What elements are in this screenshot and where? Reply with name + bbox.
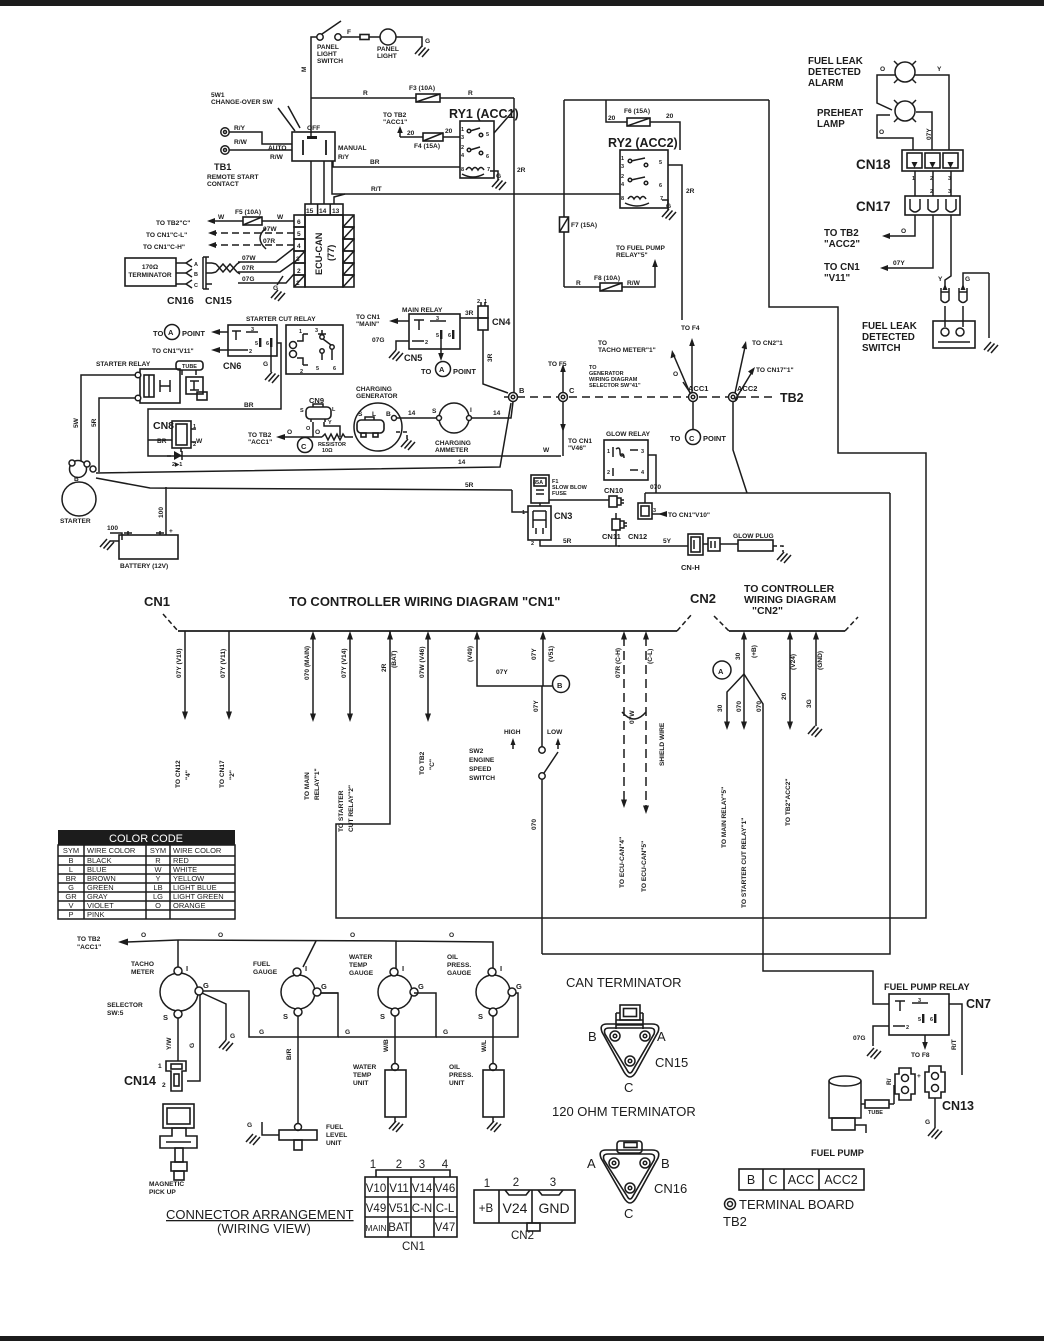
svg-text:TO CN1: TO CN1	[824, 262, 860, 273]
svg-text:20: 20	[407, 130, 415, 137]
wire 07G to pin1	[238, 274, 294, 283]
svg-text:"4": "4"	[185, 770, 192, 780]
svg-text:V: V	[68, 901, 73, 910]
svg-text:TO MAIN RELAY"5": TO MAIN RELAY"5"	[721, 787, 728, 848]
water temp unit	[394, 1016, 396, 1064]
svg-text:100: 100	[107, 525, 118, 532]
svg-text:CN13: CN13	[942, 1099, 974, 1113]
svg-text:PANEL: PANEL	[377, 46, 399, 53]
C terminal W wire down	[562, 401, 564, 456]
svg-text:2: 2	[621, 174, 624, 180]
svg-text:Y: Y	[937, 66, 942, 73]
svg-text:G: G	[263, 361, 268, 368]
wire lamp to ground	[396, 37, 422, 47]
ECU-CAN connector pin wires up	[311, 161, 345, 204]
svg-text:5: 5	[918, 1017, 921, 1023]
svg-text:CHANGE-OVER SW: CHANGE-OVER SW	[211, 99, 274, 106]
small connector next to CN-H	[708, 538, 720, 551]
svg-text:TACHO METER"1": TACHO METER"1"	[598, 347, 656, 354]
svg-text:"C": "C"	[429, 759, 436, 770]
CN1 wire 07Y V14	[349, 637, 351, 714]
svg-text:CHARGING: CHARGING	[356, 386, 392, 393]
svg-text:CHARGING: CHARGING	[435, 440, 471, 447]
svg-text:UNIT: UNIT	[353, 1080, 368, 1087]
svg-text:TO MAIN: TO MAIN	[304, 772, 311, 800]
svg-text:AUTO: AUTO	[268, 145, 287, 152]
svg-text:2: 2	[162, 1082, 166, 1089]
CN6 relay box	[228, 325, 277, 356]
svg-text:07Y (V11): 07Y (V11)	[220, 649, 227, 678]
TO TACHO METER arrow	[674, 356, 690, 393]
svg-text:4: 4	[297, 243, 301, 250]
shield brace arc	[260, 228, 266, 249]
svg-text:LIGHT: LIGHT	[377, 53, 397, 60]
svg-text:B: B	[68, 856, 73, 865]
svg-text:PANEL: PANEL	[317, 44, 339, 51]
svg-text:TO STARTER CUT RELAY"1": TO STARTER CUT RELAY"1"	[741, 818, 748, 908]
svg-text:2R: 2R	[517, 167, 526, 174]
big staircase wire to CN1 2R(BAT)	[336, 100, 926, 918]
svg-text:GREEN: GREEN	[87, 883, 114, 892]
CN17 pin2 wire TO CN1 V11	[886, 215, 933, 268]
svg-text:FUEL LEAK: FUEL LEAK	[862, 321, 917, 332]
CN2 pin table	[474, 1190, 575, 1231]
ACC2 TO CN2 arrow	[735, 347, 745, 393]
svg-text:(WIRING VIEW): (WIRING VIEW)	[217, 1221, 311, 1236]
svg-text:LAMP: LAMP	[817, 119, 845, 130]
svg-text:6: 6	[297, 219, 301, 226]
svg-text:1: 1	[484, 1178, 490, 1190]
svg-text:GAUGE: GAUGE	[349, 970, 374, 977]
starter output wires	[96, 403, 511, 473]
CN17 pin3 wire Y to fuel leak switch	[945, 215, 951, 327]
svg-text:TO TB2: TO TB2	[824, 228, 859, 239]
svg-text:W: W	[543, 447, 550, 454]
svg-text:GAUGE: GAUGE	[253, 969, 278, 976]
svg-text:2: 2	[249, 349, 252, 355]
svg-text:R: R	[576, 280, 581, 287]
svg-text:CAN TERMINATOR: CAN TERMINATOR	[566, 975, 682, 990]
svg-text:5R: 5R	[91, 418, 98, 427]
svg-text:STARTER CUT RELAY: STARTER CUT RELAY	[246, 316, 316, 323]
terminal C	[559, 393, 568, 402]
svg-text:1: 1	[484, 299, 487, 305]
svg-text:07W: 07W	[242, 255, 256, 262]
wires TB1 to change-over switch	[229, 132, 292, 150]
RY2 2R output wire	[668, 165, 682, 320]
svg-text:07W: 07W	[629, 710, 636, 724]
svg-text:RED: RED	[173, 856, 189, 865]
tube on starter relay	[176, 361, 203, 370]
svg-text:F4 (15A): F4 (15A)	[414, 143, 440, 150]
svg-text:SWITCH: SWITCH	[862, 343, 901, 354]
svg-text:TO CN1"C-L": TO CN1"C-L"	[146, 232, 187, 239]
svg-text:(V49): (V49)	[467, 646, 474, 662]
svg-text:V11: V11	[389, 1183, 409, 1195]
svg-text:RY1 (ACC1): RY1 (ACC1)	[449, 107, 519, 121]
charging ammeter	[439, 403, 469, 433]
svg-text:6: 6	[486, 154, 489, 160]
svg-text:BATTERY (12V): BATTERY (12V)	[120, 563, 168, 570]
svg-text:CN14: CN14	[124, 1074, 156, 1088]
CN1 wire V10	[184, 631, 186, 712]
svg-text:C: C	[569, 386, 575, 395]
svg-text:07W (V46): 07W (V46)	[419, 646, 426, 678]
svg-text:COLOR CODE: COLOR CODE	[109, 833, 183, 845]
svg-text:TO CN1"C-H": TO CN1"C-H"	[143, 244, 185, 251]
svg-text:100: 100	[158, 507, 165, 518]
wire 07W to pin4	[238, 248, 294, 262]
svg-text:07G: 07G	[372, 337, 384, 344]
svg-text:2: 2	[513, 1177, 519, 1189]
svg-text:F3 (10A): F3 (10A)	[409, 85, 435, 92]
svg-text:W: W	[196, 438, 203, 445]
svg-text:B/R: B/R	[286, 1048, 293, 1060]
fuse F6 (15A) on RY2 feed	[606, 100, 680, 150]
svg-text:TO CN2"1: TO CN2"1	[752, 340, 783, 347]
svg-text:S: S	[283, 1012, 288, 1021]
CN7 R/T wire to CN13	[949, 1004, 962, 1075]
G bus fuel-water	[321, 993, 436, 1037]
svg-text:CN11: CN11	[602, 532, 621, 541]
svg-text:CN-H: CN-H	[681, 563, 700, 572]
svg-text:30: 30	[717, 704, 724, 712]
svg-text:O: O	[287, 429, 292, 436]
CN15 bracket	[203, 257, 212, 289]
svg-text:4: 4	[442, 1159, 449, 1171]
svg-text:TO ECU-CAN"4": TO ECU-CAN"4"	[619, 837, 626, 888]
pin6 wire with F5 fuse TO TB2 C	[213, 220, 294, 222]
svg-text:2: 2	[300, 369, 303, 375]
svg-text:3: 3	[948, 189, 951, 195]
change-over switch box	[292, 132, 335, 161]
svg-text:TO CN12: TO CN12	[175, 760, 182, 788]
svg-text:TO STARTER: TO STARTER	[338, 790, 345, 832]
svg-text:TACHO: TACHO	[131, 961, 154, 968]
svg-text:TO: TO	[153, 329, 163, 338]
svg-text:W/L: W/L	[481, 1040, 488, 1052]
svg-text:CN18: CN18	[856, 157, 891, 172]
svg-text:I: I	[186, 964, 188, 973]
svg-text:3: 3	[251, 327, 254, 333]
CN1 wire V11	[228, 631, 230, 712]
svg-text:I: I	[500, 964, 502, 973]
svg-text:CONNECTOR ARRANGEMENT: CONNECTOR ARRANGEMENT	[166, 1207, 354, 1222]
CN17 pin1 wire TO TB2 ACC2	[888, 215, 915, 236]
svg-text:3: 3	[641, 449, 644, 455]
F1 slow blow fuse	[531, 475, 549, 503]
starter relay coil wires to starter	[81, 375, 135, 462]
svg-text:3: 3	[461, 135, 464, 141]
svg-text:HIGH: HIGH	[504, 729, 521, 736]
svg-text:LIGHT BLUE: LIGHT BLUE	[173, 883, 217, 892]
svg-text:85A: 85A	[533, 480, 543, 486]
svg-text:POINT: POINT	[182, 329, 205, 338]
svg-text:DETECTED: DETECTED	[808, 67, 861, 78]
CN1 wire V49	[477, 637, 552, 686]
CN7 TO F8 arrow	[924, 1035, 926, 1044]
G bus tacho-fuel	[203, 991, 338, 1037]
svg-text:C: C	[624, 1080, 633, 1095]
svg-text:O: O	[880, 66, 885, 73]
svg-text:V14: V14	[412, 1183, 433, 1195]
svg-text:W: W	[218, 214, 225, 221]
svg-text:G: G	[189, 1043, 196, 1048]
svg-text:TO TB2"ACC2": TO TB2"ACC2"	[785, 778, 792, 826]
svg-text:WIRE COLOR: WIRE COLOR	[173, 846, 222, 855]
svg-text:(V24): (V24)	[790, 654, 797, 670]
svg-text:GRAY: GRAY	[87, 892, 108, 901]
svg-text:R: R	[155, 856, 161, 865]
svg-text:LB: LB	[153, 883, 162, 892]
svg-text:07Y: 07Y	[496, 669, 508, 676]
G wire to fuel leak switch	[963, 273, 989, 327]
svg-text:3R: 3R	[487, 353, 494, 362]
svg-text:TB1: TB1	[214, 162, 231, 172]
svg-text:FUEL: FUEL	[253, 961, 270, 968]
svg-text:3: 3	[621, 164, 624, 170]
starter cut relay box	[286, 325, 343, 374]
CN1 wire 07W V46	[427, 637, 429, 714]
svg-text:CN4: CN4	[492, 317, 511, 327]
oil press unit	[492, 1016, 494, 1064]
svg-text:(GND): (GND)	[817, 651, 824, 670]
svg-text:CN15: CN15	[205, 295, 232, 307]
svg-text:G: G	[443, 1029, 448, 1036]
CN7 pin2 ground 07G	[873, 1026, 889, 1046]
svg-text:5Y: 5Y	[663, 538, 672, 545]
svg-text:5W1: 5W1	[211, 92, 225, 99]
svg-text:G: G	[259, 1029, 264, 1036]
svg-text:07G: 07G	[242, 276, 254, 283]
svg-text:B: B	[519, 386, 525, 395]
svg-text:1: 1	[370, 1159, 376, 1171]
070 net horizontal	[645, 492, 890, 494]
twisted pair wires	[212, 262, 240, 274]
svg-text:10Ω: 10Ω	[322, 448, 333, 454]
svg-text:TO CONTROLLER WIRING DIAGRAM ": TO CONTROLLER WIRING DIAGRAM "CN1"	[289, 594, 560, 609]
terminal board TB2 table	[739, 1169, 864, 1190]
svg-text:R: R	[363, 90, 368, 97]
svg-text:C: C	[194, 283, 198, 289]
svg-text:ACC1: ACC1	[688, 384, 708, 393]
svg-text:YELLOW: YELLOW	[173, 874, 205, 883]
fuse F8 (10A) to fuel pump relay	[564, 264, 655, 287]
svg-text:S: S	[432, 408, 437, 415]
CN4 3R wire down to B	[483, 330, 508, 393]
svg-text:SWITCH: SWITCH	[317, 58, 343, 65]
wire RY1 pin5 to 2R vertical	[494, 110, 514, 133]
svg-text:POINT: POINT	[703, 434, 726, 443]
svg-text:O: O	[673, 371, 678, 378]
ACC2 wire down to 070 net	[733, 401, 747, 493]
svg-text:+: +	[917, 1073, 921, 1080]
svg-text:"ACC1": "ACC1"	[77, 944, 101, 951]
svg-text:"ACC2": "ACC2"	[824, 239, 860, 250]
svg-text:6: 6	[333, 366, 336, 372]
svg-text:O: O	[879, 129, 884, 136]
svg-text:G: G	[247, 1122, 252, 1129]
svg-text:CN1: CN1	[144, 594, 170, 609]
CN16 pin hooks	[176, 263, 186, 284]
svg-text:A: A	[587, 1156, 596, 1171]
generator ground	[396, 432, 407, 440]
svg-text:TO F5: TO F5	[548, 361, 567, 368]
svg-text:F6 (15A): F6 (15A)	[624, 108, 650, 115]
CN2 wire V24	[789, 637, 791, 722]
CN18 to CN17 wires	[915, 171, 951, 196]
svg-text:3G: 3G	[806, 699, 813, 708]
svg-text:WIRE COLOR: WIRE COLOR	[87, 846, 136, 855]
top border bar	[0, 0, 1044, 6]
svg-text:2: 2	[607, 470, 610, 476]
svg-text:20: 20	[608, 115, 616, 122]
C point circle	[298, 438, 313, 453]
svg-text:(C-L): (C-L)	[647, 649, 654, 664]
svg-text:5: 5	[316, 366, 319, 372]
CN-H connector	[688, 534, 703, 555]
svg-text:GND: GND	[538, 1200, 569, 1216]
svg-text:G: G	[425, 38, 430, 45]
svg-text:13: 13	[332, 208, 340, 215]
svg-text:V46: V46	[435, 1183, 455, 1195]
svg-text:"CN2": "CN2"	[752, 605, 783, 617]
fuse F7 (15A) vertical	[563, 100, 565, 287]
svg-text:B: B	[74, 476, 79, 483]
svg-text:3: 3	[296, 256, 300, 263]
svg-text:WATER: WATER	[353, 1064, 377, 1071]
svg-text:07R (C-H): 07R (C-H)	[615, 648, 622, 678]
svg-text:SW:5: SW:5	[107, 1010, 124, 1017]
svg-text:STARTER RELAY: STARTER RELAY	[96, 361, 151, 368]
svg-text:P: P	[68, 910, 73, 919]
color code table	[58, 830, 235, 845]
svg-text:"ACC1": "ACC1"	[248, 439, 272, 446]
svg-text:(+B): (+B)	[751, 645, 758, 658]
CN2 wire GND	[815, 637, 817, 726]
ECU-CAN ground	[277, 276, 283, 285]
svg-text:2: 2	[930, 189, 933, 195]
svg-text:R/Y: R/Y	[234, 125, 246, 132]
svg-text:MAGNETIC: MAGNETIC	[149, 1181, 184, 1188]
svg-text:CUT RELAY"2": CUT RELAY"2"	[348, 785, 355, 832]
svg-text:2: 2	[531, 541, 534, 547]
svg-text:WHITE: WHITE	[173, 865, 197, 874]
svg-text:BLACK: BLACK	[87, 856, 112, 865]
svg-text:TO: TO	[421, 367, 431, 376]
TO CN1 V10 arrow	[652, 513, 664, 515]
svg-text:1: 1	[296, 280, 300, 287]
svg-text:CN17: CN17	[856, 199, 891, 214]
svg-text:PREHEAT: PREHEAT	[817, 108, 863, 119]
tacho G wire to CN14 pin2	[187, 995, 200, 1081]
svg-text:07Y (V14): 07Y (V14)	[341, 648, 348, 678]
svg-text:C-N: C-N	[412, 1203, 432, 1215]
svg-text:5: 5	[436, 333, 439, 339]
svg-text:07G: 07G	[853, 1035, 865, 1042]
svg-text:5W: 5W	[73, 417, 80, 428]
svg-text:2R: 2R	[686, 188, 695, 195]
svg-text:G: G	[516, 982, 522, 991]
svg-text:R/: R/	[886, 1078, 893, 1085]
battery positive wire	[165, 487, 167, 535]
svg-text:BR: BR	[244, 402, 254, 409]
svg-text:7: 7	[487, 167, 490, 173]
svg-text:SYM: SYM	[63, 846, 79, 855]
svg-text:G: G	[345, 1029, 350, 1036]
svg-text:070: 070	[531, 819, 538, 830]
svg-text:SPEED: SPEED	[469, 766, 492, 773]
svg-text:1: 1	[158, 1063, 162, 1070]
svg-text:SELECTOR: SELECTOR	[107, 1002, 143, 1009]
svg-text:C: C	[301, 442, 307, 451]
svg-text:SHIELD WIRE: SHIELD WIRE	[659, 722, 666, 766]
svg-text:REMOTE START: REMOTE START	[207, 174, 259, 181]
ACC2 TO CN17 arrow	[735, 372, 752, 400]
svg-text:3: 3	[653, 508, 656, 514]
ground	[415, 46, 429, 57]
svg-text:3: 3	[419, 1159, 425, 1171]
svg-text:PRESS.: PRESS.	[447, 962, 471, 969]
svg-text:SW2: SW2	[469, 748, 484, 755]
ECU-CAN right hatched cells	[343, 215, 354, 287]
fuel gauge S wire to fuel level unit	[297, 1016, 299, 1124]
CN1 wire 2R BAT	[389, 631, 391, 637]
svg-text:Y: Y	[938, 276, 943, 283]
svg-text:C: C	[689, 434, 695, 443]
CN6 ground wire	[270, 347, 272, 372]
svg-text:CN5: CN5	[404, 353, 422, 363]
wire 07R to pin2	[238, 262, 294, 272]
svg-text:"MAIN": "MAIN"	[356, 321, 379, 328]
svg-text:3: 3	[550, 1177, 556, 1189]
svg-text:070: 070	[756, 701, 763, 712]
svg-text:5R: 5R	[465, 482, 474, 489]
svg-text:M: M	[301, 66, 308, 72]
TB1 remote start contact terminals	[221, 128, 229, 136]
svg-text:TO CN1: TO CN1	[356, 314, 380, 321]
terminal board label	[725, 1199, 736, 1210]
svg-text:14: 14	[458, 459, 466, 466]
svg-text:I: I	[305, 964, 307, 973]
CN1 pin table	[365, 1170, 457, 1237]
svg-text:ALARM: ALARM	[808, 78, 843, 89]
svg-text:"V46": "V46"	[568, 445, 586, 452]
svg-text:O: O	[315, 429, 320, 436]
svg-text:6: 6	[930, 1017, 933, 1023]
svg-text:FUEL LEAK: FUEL LEAK	[808, 56, 863, 67]
svg-text:5: 5	[255, 341, 258, 347]
svg-text:TO TB2"C": TO TB2"C"	[156, 220, 190, 227]
svg-text:3R: 3R	[465, 310, 474, 317]
svg-text:BR: BR	[157, 438, 167, 445]
CN1 wire V51 to engine speed switch	[542, 637, 543, 747]
svg-text:TUBE: TUBE	[868, 1110, 883, 1116]
svg-text:V10: V10	[366, 1183, 386, 1195]
svg-text:FUEL PUMP: FUEL PUMP	[811, 1148, 864, 1158]
CN1 wire 07R C-H dashed	[623, 637, 625, 800]
svg-text:O: O	[218, 932, 223, 939]
svg-text:07Y (V10): 07Y (V10)	[176, 648, 183, 678]
magnetic pick up	[163, 1104, 194, 1128]
alarm wires O and Y	[877, 75, 895, 110]
wire switch to lamp with inline connector F	[341, 36, 380, 38]
svg-text:2▶1: 2▶1	[172, 461, 182, 468]
svg-text:G: G	[925, 1119, 930, 1126]
svg-text:R/W: R/W	[270, 154, 284, 161]
svg-text:I: I	[470, 407, 472, 414]
svg-text:CN6: CN6	[223, 361, 241, 371]
